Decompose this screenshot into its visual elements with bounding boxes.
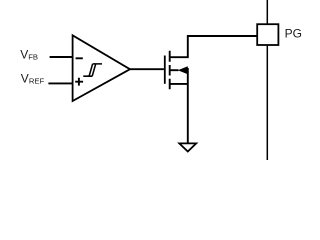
- svg-text:VFB: VFB: [20, 48, 38, 62]
- svg-text:PG: PG: [285, 27, 302, 41]
- svg-text:VREF: VREF: [21, 72, 45, 86]
